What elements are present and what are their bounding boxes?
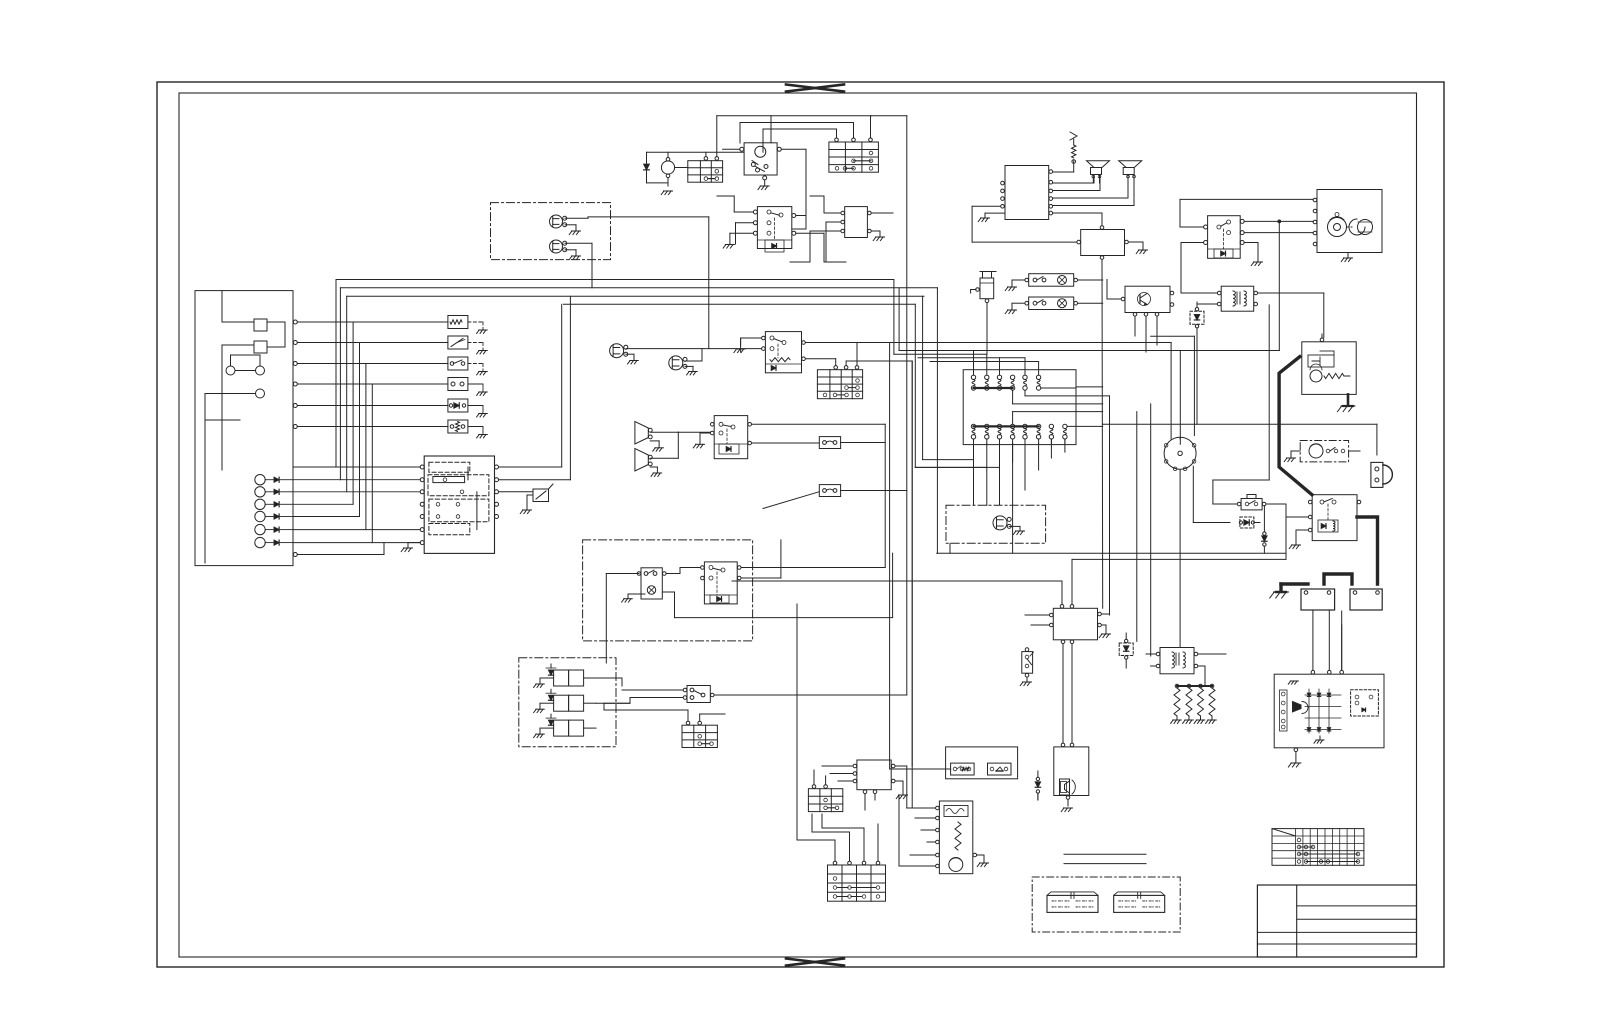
- harness drop 6: [1038, 443, 1040, 470]
- center trunk 3: [899, 288, 1279, 351]
- CDI pin6 wire: [1053, 213, 1102, 226]
- battery cable thick 1: [1279, 357, 1312, 495]
- ignition center wire: [1179, 351, 1181, 445]
- box C ground: [871, 231, 884, 241]
- harness drop 1: [973, 443, 975, 505]
- battery thick ground: [1270, 592, 1289, 598]
- key riser: [770, 116, 772, 143]
- fuel pump ground: [1284, 451, 1300, 462]
- fuel sender ground: [977, 855, 989, 867]
- mid cross wire 1: [937, 552, 1286, 554]
- brake switch riser: [0, 0, 1, 1]
- harness vertical 2: [339, 288, 341, 480]
- grid A riser: [716, 116, 718, 157]
- harness vertical 1: [335, 280, 337, 468]
- horn switch out 2: [752, 442, 820, 444]
- panel pin wire 554: [293, 543, 384, 557]
- regulator bottom wires: [1063, 644, 1072, 668]
- bulb2 link: [685, 349, 702, 361]
- horn leads: [650, 432, 678, 476]
- headlight bulb lo: [550, 240, 567, 253]
- connector grid B: [829, 138, 879, 172]
- harness vertical 3: [346, 296, 348, 492]
- diode module: [1190, 302, 1204, 336]
- dimmer feed wire: [626, 348, 761, 350]
- resistor bank: [1171, 684, 1217, 723]
- starter cut relay: [1308, 495, 1360, 541]
- fuse unit B: [819, 485, 840, 497]
- clutch out 2: [741, 540, 781, 578]
- headlight lo ground: [565, 250, 581, 260]
- spare connector box: [1032, 877, 1180, 932]
- grid C risers: [604, 703, 725, 721]
- meter bulb 1: [610, 344, 628, 358]
- igniter box G: [1125, 286, 1170, 312]
- instrument connector block: [420, 456, 498, 553]
- fuel pump feed: [1349, 450, 1360, 452]
- top rail extension: [872, 115, 907, 117]
- regulator link: [732, 580, 1062, 582]
- meter lamp 3: [256, 389, 265, 398]
- flasher unit: [976, 272, 996, 355]
- center trunk 5: [911, 361, 913, 808]
- harness lower drops: [974, 439, 1065, 443]
- pilot wires: [986, 504, 988, 506]
- toggle feed wire: [596, 678, 622, 686]
- headlight wire 2: [565, 243, 592, 287]
- headlight bulb hi: [550, 215, 567, 228]
- spare wire bar 1: [1064, 853, 1146, 855]
- alternator pins top: [1311, 670, 1343, 674]
- starter relay ground: [1338, 394, 1356, 411]
- harness right link: [1067, 425, 1103, 427]
- harness risers top: [918, 351, 1039, 376]
- box G left wire: [1107, 280, 1121, 300]
- ts relay box: [857, 760, 891, 790]
- brake switch: [1022, 648, 1034, 677]
- lamp unit 2 ground: [1005, 303, 1024, 313]
- solenoid out wires: [0, 0, 1, 1]
- grid B risers: [740, 116, 871, 152]
- horn 2: [635, 449, 652, 472]
- main bus wire 3: [347, 295, 924, 297]
- horn ground: [661, 191, 672, 195]
- bulb2 ground: [685, 366, 697, 375]
- ignition coil relay H: [1217, 286, 1257, 311]
- grid F riser 2: [846, 361, 912, 365]
- lamp unit 1 ground: [1005, 280, 1024, 291]
- box G bottom wires: [1135, 316, 1157, 352]
- main bus wire 4: [564, 303, 916, 305]
- main bus wire 2: [340, 287, 937, 289]
- fuse relay box: [946, 747, 1018, 779]
- center trunk 1: [890, 343, 951, 770]
- oil pressure sender: [533, 484, 553, 502]
- junction trunk 1279: [1278, 220, 1281, 351]
- relay F to coil relay: [1181, 243, 1217, 294]
- starter relay: [1302, 334, 1356, 394]
- starter ground: [1341, 253, 1352, 262]
- ignition wire 2: [1151, 336, 1195, 435]
- headlight box: [491, 203, 611, 260]
- neutral bulb ground: [622, 594, 645, 602]
- box C wires: [790, 196, 893, 262]
- spark plug: [1070, 132, 1077, 172]
- battery cable thick 3: [1281, 584, 1308, 590]
- regulator left wires: [1025, 615, 1049, 625]
- box E wires: [1129, 242, 1148, 254]
- key switch ground: [758, 180, 769, 190]
- relay H out wire: [1258, 293, 1324, 338]
- solenoid box: [519, 658, 616, 747]
- fuel sender wires left: [899, 808, 935, 866]
- fuse A drop trunk: [884, 424, 886, 567]
- connector block pin wires right: [499, 296, 571, 492]
- main harness connector: [963, 370, 1076, 445]
- horn 1: [635, 422, 652, 445]
- right trunk D: [1150, 404, 1152, 656]
- relay H2 diag wires: [1285, 503, 1287, 505]
- fuel pump contacts: [1326, 448, 1345, 453]
- interlock wires: [606, 568, 700, 664]
- indicator square 1: [254, 319, 267, 331]
- harness riser wire c: [1041, 387, 1103, 388]
- fuel pump motor: [1309, 444, 1323, 458]
- main bus wire 1: [336, 279, 893, 281]
- relay F right wire 2: [1244, 232, 1313, 234]
- dimmer left wires: [734, 338, 762, 353]
- harness drop 2: [986, 443, 988, 505]
- connector grid A: [688, 157, 723, 183]
- ts relay pins: [853, 764, 895, 793]
- horn switch out 1: [752, 423, 886, 425]
- resistor bank feed: [0, 0, 1, 1]
- right wire pair: [0, 0, 1, 1]
- ignition coil: [1156, 648, 1198, 674]
- relay F right wire 3: [1244, 243, 1262, 266]
- box D right wires: [796, 216, 846, 263]
- headlight hi ground: [565, 225, 581, 235]
- connector pin7 ground: [401, 543, 420, 552]
- flasher ground wire: [971, 290, 976, 294]
- box D left wires: [717, 196, 753, 248]
- toggle wires: [604, 690, 907, 703]
- harness drop 4: [1012, 443, 1014, 553]
- warning lamp cluster: [255, 475, 293, 548]
- battery jumper thick: [1324, 574, 1352, 584]
- dimmer out 2: [806, 359, 836, 366]
- center trunk 2: [894, 280, 987, 355]
- connector grid D: [808, 785, 842, 812]
- box G pins: [1121, 291, 1174, 316]
- right frame wires: [0, 0, 1, 1]
- harness vertical 4: [352, 322, 354, 504]
- connector ground pin: [0, 0, 1, 1]
- sender feed gap: [906, 766, 908, 808]
- regulator right wires: [1099, 614, 1110, 638]
- CDI ground: [978, 213, 1005, 222]
- sender ground wire: [520, 495, 533, 514]
- buzzer wires: [1061, 644, 1072, 812]
- fuse unit A: [819, 437, 840, 449]
- solenoid feed: [550, 663, 552, 665]
- control box E: [1081, 230, 1125, 256]
- long right wire A: [0, 0, 1, 1]
- harness drop 7: [1050, 439, 1052, 458]
- mid cross wire 2: [1072, 559, 1286, 588]
- clutch switch: [701, 562, 741, 604]
- warning buzzer: [1054, 743, 1089, 799]
- CDI unit box: [1005, 166, 1049, 220]
- top center cut mark: [786, 85, 844, 92]
- alternator risers: [1313, 611, 1342, 670]
- panel internal wires: [205, 291, 285, 470]
- fuel pump box: [1300, 441, 1348, 462]
- diode vert C: [1035, 771, 1040, 800]
- interlock box: [583, 540, 753, 641]
- instrument panel box: [195, 291, 293, 566]
- right wire 1: [898, 348, 900, 350]
- speaker horn 1: [1087, 161, 1110, 183]
- grid F riser 3: [856, 343, 858, 366]
- brake switch ground: [1020, 677, 1031, 685]
- solenoid link 2: [596, 702, 630, 704]
- pilot ground: [1009, 526, 1024, 534]
- harness drop 5: [1024, 443, 1026, 490]
- center trunk 6: [915, 304, 999, 467]
- key switch: [740, 143, 782, 180]
- box E pins: [1077, 226, 1128, 260]
- headlight feed wire: [565, 217, 611, 218]
- interlock bottom wire: [662, 553, 892, 617]
- key switch feed: [675, 149, 740, 167]
- clutch out 1: [741, 567, 885, 569]
- rectifier box C: [845, 207, 868, 238]
- panel to fuse wires: [293, 320, 448, 429]
- interlock drop: [0, 0, 1, 1]
- light switch box D: [753, 207, 795, 252]
- harness vertical 6: [365, 364, 367, 530]
- pilot bulb: [993, 516, 1011, 530]
- relay F nest to starter: [1180, 199, 1313, 227]
- diode unit 2: [1119, 633, 1133, 668]
- small relay unit: [1237, 495, 1266, 510]
- sender wire 899: [898, 795, 900, 866]
- ts relay wires: [822, 766, 908, 810]
- panel internal bottom wire: [204, 420, 206, 563]
- regulator pins: [1050, 605, 1102, 644]
- diode module drop: [1196, 328, 1198, 424]
- CDI right wire 1: [1053, 171, 1074, 173]
- box C pins: [841, 211, 871, 233]
- ignition coil wires: [1146, 654, 1226, 686]
- speaker wires: [1053, 177, 1134, 206]
- fuse unit A wires: [841, 442, 886, 444]
- horn to switch wire: [678, 431, 710, 433]
- diode dashed A: [1239, 517, 1260, 528]
- starter motor: [1313, 190, 1382, 253]
- harness drop 8: [1064, 439, 1066, 452]
- right trunk C: [1136, 412, 1138, 642]
- bottom center cut mark: [786, 959, 844, 966]
- harness vertical 5: [359, 343, 361, 517]
- horn switch ground: [693, 433, 710, 448]
- CDI pins: [1001, 170, 1053, 215]
- small relay wires: [1213, 305, 1286, 560]
- panel to connector wires: [293, 467, 420, 543]
- CDI to control box wire: [972, 206, 1077, 242]
- relay F: [1204, 216, 1245, 259]
- pilot bottom link: [949, 543, 951, 553]
- connector grid C: [682, 721, 717, 747]
- border inner frame: [179, 93, 1417, 957]
- harness vertical 7: [371, 384, 373, 543]
- indicator square 2: [254, 341, 267, 353]
- horn switch: [710, 416, 751, 459]
- solenoid out 1: [0, 0, 1, 1]
- harness drop 3: [999, 443, 1001, 505]
- grid E risers: [797, 824, 878, 861]
- lamp switch unit 1: [1025, 274, 1078, 287]
- harness riser wire b: [1025, 390, 1110, 396]
- connector legend table: [1272, 829, 1364, 866]
- grid E 797 riser: [796, 604, 798, 840]
- grid A riser 2: [705, 152, 707, 156]
- alternator: [1274, 674, 1384, 748]
- spare wire bar 2: [1064, 863, 1146, 865]
- toggle switch: [683, 686, 714, 703]
- center trunk 7: [923, 296, 974, 459]
- battery 1: [1301, 589, 1335, 610]
- alternator ground: [1288, 748, 1301, 767]
- dimmer switch: [762, 332, 806, 373]
- battery cable thick 2: [1357, 517, 1378, 584]
- relay F right wire 1: [1244, 220, 1313, 223]
- regulator box: [1053, 608, 1097, 640]
- fuse and sensor column: [448, 316, 487, 438]
- connector grid E: [828, 861, 886, 901]
- diode vert B: [1262, 506, 1267, 554]
- alternator inner ground: [1314, 736, 1324, 743]
- key out wire right: [781, 149, 806, 229]
- battery 2: [1350, 589, 1382, 610]
- connector grid F: [817, 366, 862, 399]
- grid D risers: [814, 770, 826, 785]
- bulb1 ground: [626, 354, 638, 364]
- dimmer out 1: [806, 343, 1172, 439]
- dist feed wire: [1102, 423, 1104, 425]
- fuse unit B wires: [763, 491, 907, 509]
- solenoid units: [534, 664, 596, 738]
- center trunk 4: [906, 116, 908, 695]
- meter lamp 2: [256, 366, 265, 375]
- horn circle: [661, 152, 674, 177]
- headlight harness wire: [611, 217, 709, 349]
- long wire right 1: [0, 0, 1, 1]
- distributor: [1164, 437, 1196, 470]
- coil feed long wire: [1103, 424, 1377, 455]
- harness riser wire a: [1013, 390, 1103, 404]
- neutral switch: [637, 568, 666, 599]
- meter bulb 2: [669, 356, 687, 370]
- distributor drop wires: [1180, 466, 1230, 647]
- box G transistor: [1138, 293, 1151, 306]
- horn diode branch: [644, 152, 668, 186]
- border outer frame: [157, 82, 1444, 967]
- solenoid riser: [0, 0, 1, 1]
- fuel gauge sender: [936, 801, 977, 874]
- right trunk B: [1109, 396, 1111, 615]
- box G top wires: [0, 0, 1, 1]
- harness lower feed: [1013, 412, 1103, 425]
- fuse box wires: [0, 0, 1, 1]
- starter left stub wires: [0, 0, 1, 1]
- lamp unit right wires: [1078, 280, 1103, 303]
- lamp switch unit 2: [1025, 297, 1078, 310]
- cable to relay H2 thick: [0, 0, 1, 1]
- top rail wire: [717, 115, 872, 117]
- relay H pin2 wire: [1197, 302, 1217, 304]
- pickup clamp: [1371, 462, 1393, 487]
- center trunk 6: [936, 288, 938, 553]
- speaker horn 2: [1119, 161, 1142, 183]
- regulator top risers: [1062, 581, 1072, 604]
- relay H2 wires: [1286, 517, 1308, 549]
- pilot box: [946, 505, 1046, 543]
- trunk 1102: [1101, 260, 1104, 609]
- grid E link2: [812, 814, 822, 832]
- meter lamp 1: [226, 366, 235, 375]
- horn relay wire top: [647, 151, 744, 153]
- title block: [1257, 885, 1416, 957]
